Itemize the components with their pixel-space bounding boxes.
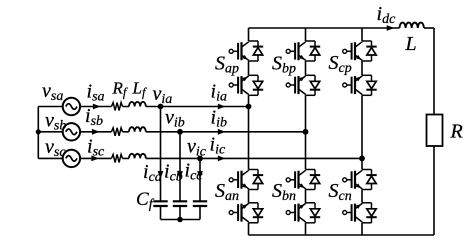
phase c wire xyxy=(38,157,362,159)
node vic xyxy=(197,156,203,162)
junction leg C phase c xyxy=(359,156,365,162)
node via xyxy=(158,104,164,110)
current arrow icb xyxy=(177,171,183,179)
switch Sap lower device (mirrored) xyxy=(229,75,263,95)
leg A vertical segments xyxy=(248,28,250,235)
leg C vertical segments xyxy=(361,28,363,235)
AC source vsb xyxy=(63,123,80,140)
dc top bus xyxy=(249,27,400,29)
junction capacitor neutral xyxy=(177,217,183,223)
svg-text:L: L xyxy=(405,33,417,55)
capacitor Cf plates phase a xyxy=(153,201,167,206)
switch Scn lower device (mirrored) xyxy=(343,203,377,223)
current arrow isc xyxy=(91,156,99,162)
phase a wire xyxy=(38,106,248,108)
switch Sbp lower device (mirrored) xyxy=(286,75,320,95)
switch Sbn upper device xyxy=(286,170,320,190)
filter Rf Lf phase c xyxy=(112,154,146,163)
switch Scp upper device xyxy=(343,41,377,61)
AC source vsa xyxy=(63,98,80,115)
current arrow isa xyxy=(93,104,101,110)
wire load to bottom bus xyxy=(433,146,435,235)
current arrow icc xyxy=(197,171,203,179)
switch Scn upper device xyxy=(343,170,377,190)
left neutral bus wire xyxy=(37,107,39,159)
leg B vertical segments xyxy=(305,28,307,235)
switch Sap upper device xyxy=(229,41,263,61)
capacitor Cf plates phase b xyxy=(173,201,187,206)
switch Sbn lower device (mirrored) xyxy=(286,203,320,223)
junction node left bus phase b xyxy=(36,129,41,134)
current arrow iia xyxy=(218,104,226,110)
load resistor R body xyxy=(427,115,443,147)
capacitor branch a wire xyxy=(160,107,162,220)
dc inductor L coil xyxy=(400,23,424,28)
AC source vsc xyxy=(63,150,80,167)
current arrow ica xyxy=(158,171,164,179)
switch San upper device xyxy=(229,170,263,190)
capacitor branch c wire xyxy=(199,158,201,219)
wire coil to right corner xyxy=(424,27,434,29)
svg-text:R: R xyxy=(450,121,463,143)
switch San lower device (mirrored) xyxy=(229,203,263,223)
node vib xyxy=(177,129,183,135)
switch Sbp upper device xyxy=(286,41,320,61)
current arrow iib xyxy=(218,129,226,135)
current arrow isb xyxy=(92,129,100,135)
capacitor Cf plates phase c xyxy=(193,201,207,206)
filter Rf Lf phase a xyxy=(112,102,146,111)
switch Scp lower device (mirrored) xyxy=(343,75,377,95)
current arrow iic xyxy=(218,156,226,162)
filter Rf Lf phase b xyxy=(112,127,146,136)
capacitor neutral bus xyxy=(161,219,201,221)
current arrow idc xyxy=(387,25,395,31)
capacitor branch b wire xyxy=(179,132,181,220)
right vertical wire down to load xyxy=(433,28,435,115)
dc bottom bus xyxy=(249,234,435,236)
junction leg A phase a xyxy=(246,104,252,110)
phase b wire xyxy=(38,131,305,133)
junction leg B phase b xyxy=(303,129,309,135)
